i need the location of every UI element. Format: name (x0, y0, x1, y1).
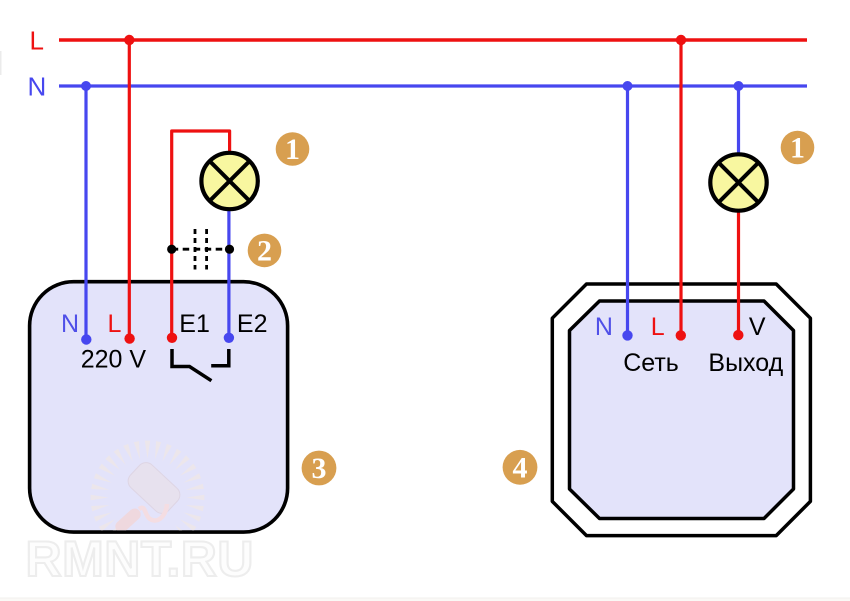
wire N bus (59, 84, 807, 87)
wire: red from right lamp bottom to V (737, 210, 740, 335)
svg-text:L: L (108, 310, 122, 338)
node red terminal L right box (676, 330, 686, 340)
left box (device 3) (30, 282, 288, 532)
svg-text:RMNT.RU: RMNT.RU (26, 531, 254, 587)
wire: right red drop from L bus (679, 40, 682, 335)
watermark logo (paint roller with rays) in left box (91, 441, 205, 555)
svg-text:Выход: Выход (708, 349, 783, 377)
node blue terminal E2 (224, 333, 234, 343)
badge 2 (248, 234, 282, 268)
svg-text:3: 3 (312, 452, 327, 485)
svg-text:L: L (30, 26, 44, 56)
svg-text:E1: E1 (179, 310, 210, 338)
svg-text:2: 2 (257, 234, 272, 267)
bottom faint band (0, 598, 850, 601)
svg-text:220 V: 220 V (81, 345, 147, 373)
node red terminal V (733, 330, 743, 340)
roller handle curve (139, 504, 167, 521)
wire: left red drop (128, 40, 131, 339)
node red junction on L bus (676, 35, 686, 45)
badge 4 (503, 450, 538, 485)
node red junction on L (124, 35, 134, 45)
svg-text:L: L (651, 313, 665, 341)
wire L bus (59, 38, 807, 41)
svg-text:N: N (595, 313, 613, 341)
node blue terminal N in box (81, 334, 91, 344)
svg-text:1: 1 (285, 133, 300, 166)
svg-text:4: 4 (513, 452, 528, 485)
svg-text:Сеть: Сеть (623, 349, 679, 377)
wire: red loop lamp1 to E1 (172, 131, 230, 338)
badge 1 (left lamp) (276, 132, 310, 166)
node blue terminal N right box (622, 330, 632, 340)
right box inner octagon (570, 301, 794, 519)
node red terminal E1 (167, 333, 177, 343)
node blue junction on N (81, 81, 91, 91)
handle grip (113, 506, 143, 535)
node black dot on red wire (167, 245, 176, 254)
right box (device 4) outer octagon (552, 284, 810, 536)
lamp 1 left (201, 153, 257, 209)
badge 1 (right lamp) (781, 131, 815, 165)
wire: blue to right lamp top (737, 86, 740, 155)
node blue junction on N bus 2 (734, 81, 744, 91)
node blue junction on N bus (623, 81, 633, 91)
node black dot on blue wire (225, 245, 234, 254)
connector symbol (2): dashed cross with dots (172, 229, 230, 270)
badge 3 (302, 451, 337, 486)
wire: left blue drop (84, 86, 87, 340)
node red terminal L in box (124, 333, 134, 343)
svg-text:V: V (749, 313, 766, 341)
wire: blue lamp1 bottom to E2 (227, 210, 230, 338)
svg-text:N: N (61, 310, 79, 338)
svg-text:E2: E2 (237, 310, 268, 338)
roller body (124, 459, 183, 517)
svg-text:N: N (28, 72, 47, 102)
left edge faint artifact (0, 51, 2, 75)
switch symbol in left box (172, 349, 229, 381)
svg-text:1: 1 (790, 132, 805, 165)
lamp 1 right (710, 154, 766, 210)
wire: right blue drop to N (626, 86, 629, 335)
